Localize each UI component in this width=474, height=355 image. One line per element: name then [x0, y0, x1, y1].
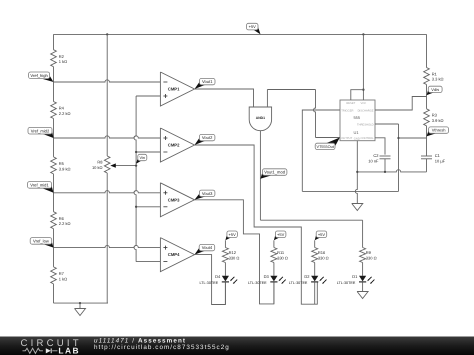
svg-text:Vout2: Vout2	[202, 135, 213, 140]
svg-text:1 kΩ: 1 kΩ	[59, 59, 67, 64]
svg-text:DISCHARGE: DISCHARGE	[358, 109, 374, 112]
svg-text:AND1: AND1	[256, 116, 265, 120]
svg-text:THRESHOLD: THRESHOLD	[357, 123, 374, 126]
svg-text:Vin: Vin	[140, 155, 146, 160]
svg-text:R8: R8	[97, 159, 103, 164]
svg-text:2.2 kΩ: 2.2 kΩ	[59, 111, 71, 116]
svg-text:Vref_mid1: Vref_mid1	[30, 183, 49, 188]
svg-text:Vout4: Vout4	[202, 245, 213, 250]
svg-text:R11: R11	[277, 250, 285, 255]
svg-text:LTL-30TEE: LTL-30TEE	[337, 281, 356, 285]
svg-text:GND: GND	[354, 138, 360, 141]
svg-text:http://circuitlab.com/c873533t: http://circuitlab.com/c873533t55c2g	[94, 344, 230, 351]
svg-text:Vout3: Vout3	[202, 191, 213, 196]
svg-text:D4: D4	[215, 274, 221, 279]
svg-text:CMP3: CMP3	[168, 197, 180, 202]
svg-text:3.3 kΩ: 3.3 kΩ	[432, 77, 444, 82]
svg-text:Vref_mid2: Vref_mid2	[31, 128, 50, 133]
svg-text:+5V: +5V	[229, 232, 237, 237]
svg-text:Vout1: Vout1	[202, 79, 213, 84]
svg-text:3.9 kΩ: 3.9 kΩ	[432, 118, 444, 123]
svg-text:Vthresh: Vthresh	[432, 128, 446, 133]
svg-text:OUTPUT: OUTPUT	[341, 137, 352, 140]
svg-text:330 Ω: 330 Ω	[366, 256, 377, 261]
svg-text:10 kΩ: 10 kΩ	[92, 165, 103, 170]
svg-text:Vdis: Vdis	[431, 87, 439, 92]
svg-text:VT555Out: VT555Out	[316, 145, 334, 149]
svg-text:C1: C1	[435, 153, 441, 158]
svg-text:2.2 kΩ: 2.2 kΩ	[59, 221, 71, 226]
svg-text:RESET: RESET	[346, 102, 355, 105]
svg-text:+5V: +5V	[249, 24, 257, 29]
svg-text:CMP4: CMP4	[168, 252, 180, 257]
svg-text:1 kΩ: 1 kΩ	[59, 276, 67, 281]
svg-text:R16: R16	[318, 250, 326, 255]
svg-text:D2: D2	[304, 274, 310, 279]
svg-text:VCC: VCC	[361, 102, 367, 105]
svg-text:CONTROL: CONTROL	[360, 137, 374, 140]
svg-text:555: 555	[353, 115, 360, 120]
svg-text:D1: D1	[352, 274, 358, 279]
svg-text:10 µF: 10 µF	[435, 159, 446, 164]
svg-text:LTL-30TEE: LTL-30TEE	[248, 281, 267, 285]
svg-text:D3: D3	[264, 274, 270, 279]
svg-text:CMP1: CMP1	[168, 87, 180, 92]
svg-text:330 Ω: 330 Ω	[277, 256, 288, 261]
svg-text:+5V: +5V	[318, 232, 326, 237]
svg-text:330 Ω: 330 Ω	[229, 256, 240, 261]
svg-text:Vref_high: Vref_high	[30, 73, 48, 78]
svg-text:CMP2: CMP2	[168, 143, 180, 148]
svg-text:3.9 kΩ: 3.9 kΩ	[59, 166, 71, 171]
svg-text:LAB: LAB	[58, 346, 80, 355]
svg-text:Vout1_mod: Vout1_mod	[264, 170, 285, 175]
svg-text:C2: C2	[373, 153, 379, 158]
svg-text:LTL-30TEE: LTL-30TEE	[200, 281, 219, 285]
svg-text:LTL-30TEE: LTL-30TEE	[289, 281, 308, 285]
svg-text:10 nF: 10 nF	[368, 159, 379, 164]
svg-text:TRIGGER: TRIGGER	[341, 109, 353, 112]
svg-text:R9: R9	[366, 250, 372, 255]
svg-text:330 Ω: 330 Ω	[318, 256, 329, 261]
svg-text:R12: R12	[229, 250, 237, 255]
svg-text:Vref_low: Vref_low	[33, 239, 49, 244]
svg-text:+5V: +5V	[277, 232, 285, 237]
svg-text:U1: U1	[353, 130, 359, 135]
